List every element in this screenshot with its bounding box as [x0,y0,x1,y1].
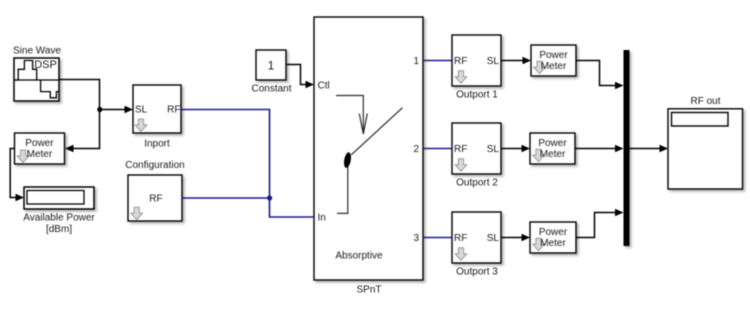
svg-text:2: 2 [413,144,419,155]
svg-text:Configuration: Configuration [125,160,184,171]
svg-text:RF: RF [167,104,180,115]
svg-text:Power: Power [25,138,54,149]
svg-text:RF: RF [454,56,467,67]
svg-text:RF out: RF out [690,96,720,107]
svg-text:DSP: DSP [34,59,57,71]
svg-text:Constant: Constant [251,84,291,95]
svg-text:SL: SL [487,144,500,155]
svg-text:Power: Power [539,227,568,238]
svg-text:SL: SL [135,104,148,115]
svg-text:Power: Power [538,138,567,149]
svg-text:Meter: Meter [540,149,566,160]
svg-text:Power: Power [539,50,568,61]
svg-text:Available Power: Available Power [23,213,95,224]
svg-text:Outport 2: Outport 2 [456,177,498,188]
svg-text:Inport: Inport [144,139,170,150]
svg-text:Outport 1: Outport 1 [456,89,498,100]
svg-text:Ctl: Ctl [318,80,330,91]
svg-text:[dBm]: [dBm] [46,224,72,235]
svg-text:Absorptive: Absorptive [335,251,383,262]
svg-text:RF: RF [454,233,467,244]
svg-text:RF: RF [149,194,162,205]
svg-text:Meter: Meter [27,149,53,160]
svg-text:1: 1 [413,56,419,67]
svg-text:Meter: Meter [541,61,567,72]
svg-text:RF: RF [454,144,467,155]
svg-text:In: In [318,212,326,223]
svg-text:Outport 3: Outport 3 [456,266,498,277]
svg-text:Meter: Meter [540,238,566,249]
svg-text:3: 3 [413,233,419,244]
svg-text:SPnT: SPnT [356,285,381,296]
svg-text:SL: SL [487,56,500,67]
svg-text:Sine Wave: Sine Wave [13,46,61,57]
svg-text:SL: SL [487,233,500,244]
svg-text:1: 1 [268,58,275,72]
